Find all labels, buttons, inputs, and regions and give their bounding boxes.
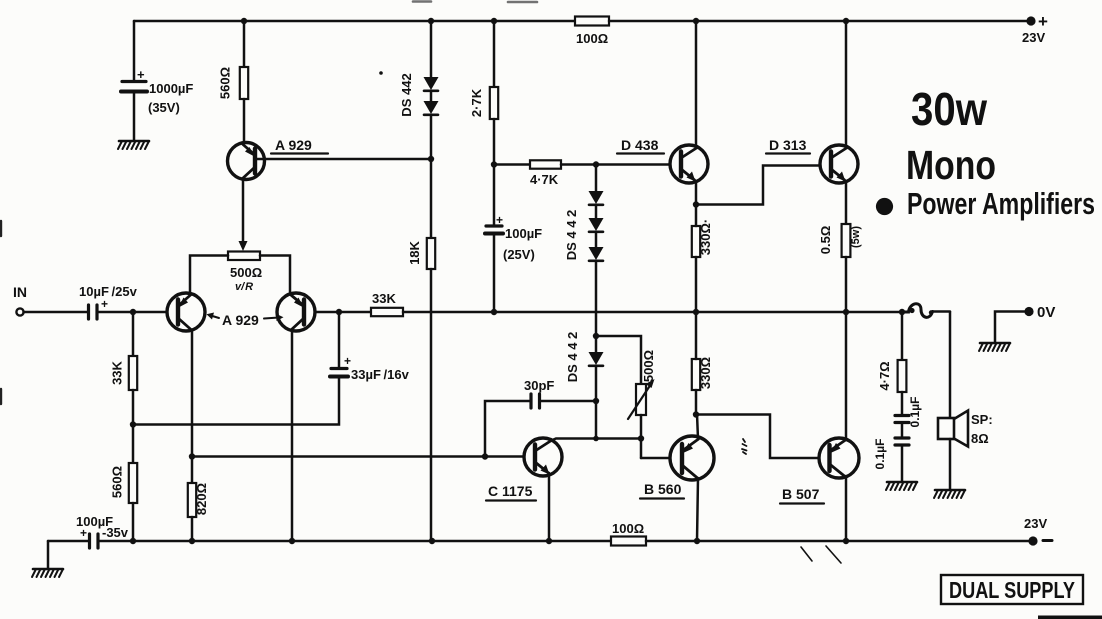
resistor 4.7Ω (zobel) xyxy=(877,312,906,415)
svg-text:B 507: B 507 xyxy=(782,486,820,502)
svg-text:DUAL SUPPLY: DUAL SUPPLY xyxy=(949,577,1075,603)
node IN terminal xyxy=(13,284,27,316)
wire feedback line to 33µF xyxy=(133,377,339,425)
title 30w xyxy=(911,83,987,135)
node top rail / 2.7K xyxy=(491,18,497,24)
capacitor 100µF -35v (rail series) xyxy=(76,514,129,548)
svg-text:2·7K: 2·7K xyxy=(469,88,484,117)
svg-text:18K: 18K xyxy=(407,240,422,264)
node rail / Q3 collector xyxy=(289,538,295,544)
node -23V supply terminal xyxy=(1024,516,1052,546)
capacitor 10µF/25v input coupling xyxy=(79,284,138,319)
stray slash marks xyxy=(801,546,841,563)
svg-text:DS 442: DS 442 xyxy=(399,73,414,116)
svg-text:-35v: -35v xyxy=(102,525,129,540)
diode DS442 single (bias) xyxy=(565,332,604,401)
svg-text:330Ω·: 330Ω· xyxy=(698,219,713,255)
node VR bottom / C1175 collector line xyxy=(638,435,644,441)
wire C1175 emitter to rail xyxy=(548,473,551,541)
wire D438 emitter down xyxy=(695,181,698,204)
resistor 4.7K xyxy=(494,160,670,187)
svg-text:+: + xyxy=(1038,12,1048,31)
resistor 820Ω xyxy=(188,457,209,541)
wire D438 emitter to D313 base xyxy=(696,166,820,205)
svg-text:(35V): (35V) xyxy=(148,100,180,115)
transistor A929 driver (Q1) xyxy=(228,137,329,180)
resistor 100Ω (top rail) xyxy=(575,17,609,47)
node +23V supply terminal xyxy=(1022,12,1048,45)
wire bottom rail right segment xyxy=(646,540,1031,543)
stray left-edge scan marks xyxy=(0,221,2,404)
stray ink scribble near B560 xyxy=(742,439,747,454)
wire Q3 base xyxy=(315,311,339,314)
potentiometer 500Ω V/R xyxy=(190,252,290,294)
svg-text:+: + xyxy=(344,354,351,368)
wire output mid rail xyxy=(403,311,906,314)
svg-text:+: + xyxy=(137,67,145,82)
wire input to coupling cap xyxy=(24,311,88,314)
transistor D438 (pre-driver, NPN) xyxy=(617,137,708,183)
node rail / B560 xyxy=(694,538,700,544)
wire bottom -23V rail left segment xyxy=(48,540,89,543)
svg-text:+: + xyxy=(101,297,108,311)
wire single diode to VAS collector line xyxy=(595,401,598,439)
capacitor 33µF/16v feedback xyxy=(330,312,410,382)
node B507 collector / output rail xyxy=(843,309,849,315)
node feedback junction xyxy=(130,421,136,427)
svg-text:D 438: D 438 xyxy=(621,137,659,153)
resistor 0.5Ω (5w) upper emitter xyxy=(818,224,862,312)
wire VAS base line to C1175 xyxy=(192,455,524,458)
node rail / B507 emitter xyxy=(843,538,849,544)
node top rail / D438 collector xyxy=(693,18,699,24)
wire Q2 collector down xyxy=(191,330,194,456)
node D438 emitter / 330Ω / D313 base link xyxy=(693,201,699,207)
wire Q3 collector down to rail xyxy=(291,330,294,541)
resistor 560Ω (driver emitter, top) xyxy=(218,21,249,143)
wire D313 emitter to 0.5Ω xyxy=(845,181,848,224)
speaker SP 8Ω xyxy=(938,312,993,489)
resistor 33K (input to feedback node) xyxy=(110,312,138,424)
svg-text:100Ω: 100Ω xyxy=(612,521,644,536)
node rail / C1175 emitter xyxy=(546,538,552,544)
ground (zobel) xyxy=(886,482,917,490)
stray bottom-right scan strip xyxy=(1038,616,1102,619)
label A 929 of input pair with pointer arrows xyxy=(207,312,284,328)
node 330Ω lower / B560 emitter / B507 base link xyxy=(693,411,699,417)
svg-text:v/ R: v/ R xyxy=(235,281,253,293)
transistor A929 right of input pair (Q3) xyxy=(277,293,315,331)
svg-text:560Ω: 560Ω xyxy=(110,466,125,498)
node diode bottom corner xyxy=(593,436,599,442)
resistor 18K xyxy=(407,159,435,541)
wire C1175 collector to bias chain xyxy=(550,439,596,442)
svg-text:560Ω: 560Ω xyxy=(218,67,233,99)
svg-text:DS 4 4 2: DS 4 4 2 xyxy=(565,332,580,383)
node bias chain / VR top xyxy=(593,333,599,339)
svg-text:33K: 33K xyxy=(372,291,396,306)
node top rail / D313 collector xyxy=(843,18,849,24)
wire A929 driver base to DS442 node xyxy=(257,158,431,161)
transistor B560 (lower driver, PNP) xyxy=(640,436,714,499)
node rail / 18K xyxy=(429,538,435,544)
svg-text:0V: 0V xyxy=(1037,304,1055,321)
node 330Ω pair / output rail xyxy=(693,309,699,315)
wire B560 bottom lead to rail xyxy=(697,478,698,541)
svg-text:D 313: D 313 xyxy=(769,137,807,153)
capacitor C 1000µF/35V xyxy=(121,21,193,140)
node 30pF / C1175 base line xyxy=(482,453,488,459)
svg-text:33µF /16v: 33µF /16v xyxy=(351,367,410,382)
svg-text:4·7Ω: 4·7Ω xyxy=(877,361,892,390)
node 2.7K / 4.7K / bootstrap xyxy=(491,161,497,167)
svg-text:Power Amplifiers: Power Amplifiers xyxy=(907,186,1095,221)
svg-text:B 560: B 560 xyxy=(644,481,682,497)
ground (speaker) xyxy=(934,490,965,498)
title Mono xyxy=(906,142,996,188)
svg-text:(25V): (25V) xyxy=(503,247,535,262)
svg-text:Mono: Mono xyxy=(906,142,996,188)
svg-text:100Ω: 100Ω xyxy=(576,31,608,46)
node rail / 560Ω xyxy=(130,538,136,544)
wire 330Ω node to B507 base xyxy=(696,415,819,459)
wire B507 emitter to rail xyxy=(845,476,848,541)
svg-text:0.1µF: 0.1µF xyxy=(908,397,922,428)
svg-text:C 1175: C 1175 xyxy=(488,483,533,499)
resistor 100Ω (bottom rail) xyxy=(611,521,646,546)
wire D313 collector to +rail xyxy=(845,21,848,148)
ground (bottom-left) xyxy=(32,569,63,577)
svg-text:500Ω: 500Ω xyxy=(230,265,262,280)
svg-text:+: + xyxy=(496,213,503,227)
node top rail / 560Ω xyxy=(241,18,247,24)
ground (0V reference) xyxy=(979,343,1010,351)
ground (below 1000µF) xyxy=(118,141,149,149)
title bullet Power Amplifiers xyxy=(876,186,1095,221)
svg-text:820Ω: 820Ω xyxy=(194,483,209,515)
stray speck xyxy=(379,71,383,75)
node zobel / output rail xyxy=(899,309,905,315)
resistor 330Ω (upper) xyxy=(692,205,713,312)
stray scan marks top edge xyxy=(413,0,537,3)
svg-text:23V: 23V xyxy=(1022,30,1045,45)
svg-text:23V: 23V xyxy=(1024,516,1047,531)
node 0V terminal xyxy=(1024,304,1055,321)
wire top +23V rail right segment xyxy=(609,20,1029,23)
svg-text:A 929: A 929 xyxy=(222,312,259,328)
node top rail / DS442 pair xyxy=(428,18,434,24)
wire A929 driver collector down to pot wiper xyxy=(239,179,248,251)
wire bottom rail middle segment xyxy=(98,540,611,543)
resistor 560Ω (feedback shunt, lower) xyxy=(110,425,138,541)
svg-text:30w: 30w xyxy=(911,83,987,135)
resistor 330Ω (lower) xyxy=(692,312,713,414)
node 4.7K / bias diode chain xyxy=(593,161,599,167)
wire top +23V rail left segment xyxy=(134,20,575,23)
diode DS442 pair (top) xyxy=(399,21,439,159)
capacitor 0.1µF (zobel lower) xyxy=(873,438,909,481)
resistor 33K (output line series) xyxy=(339,291,403,316)
transistor B507 (lower output, PNP) xyxy=(780,438,859,504)
svg-text:10µF /25v: 10µF /25v xyxy=(79,284,138,299)
transistor D313 (upper output, NPN) xyxy=(766,137,858,183)
svg-text:IN: IN xyxy=(13,284,27,300)
node input bias junction xyxy=(130,309,136,315)
wire 0V to ground xyxy=(995,312,1025,343)
svg-text:0.5Ω: 0.5Ω xyxy=(818,226,833,255)
label DUAL SUPPLY box xyxy=(941,575,1083,604)
svg-text:100µF: 100µF xyxy=(505,226,542,241)
capacitor 100µF/25V bootstrap xyxy=(485,165,542,313)
svg-text:500Ω: 500Ω xyxy=(641,350,656,382)
capacitor 0.1µF (zobel upper) xyxy=(895,397,922,438)
transistor A929 left of input pair (Q2) xyxy=(167,293,205,331)
node rail / 820Ω xyxy=(189,538,195,544)
svg-text:1000µF: 1000µF xyxy=(149,81,193,96)
wire VR bottom to B560 base xyxy=(641,457,670,460)
node Q2 collector / 820Ω / C1175 base line xyxy=(189,453,195,459)
svg-text:DS 4 4 2: DS 4 4 2 xyxy=(564,210,579,261)
wire coupling cap to Q2 base xyxy=(97,311,167,314)
node bootstrap / output rail xyxy=(491,309,497,315)
svg-text:30pF: 30pF xyxy=(524,378,554,393)
svg-text:330Ω: 330Ω xyxy=(698,357,713,389)
wire D438 collector to +rail xyxy=(695,21,698,148)
svg-text:8Ω: 8Ω xyxy=(971,431,989,446)
svg-text:4·7K: 4·7K xyxy=(530,172,559,187)
node DS442 pair / driver base / 18K xyxy=(428,156,434,162)
svg-text:(5w): (5w) xyxy=(850,226,862,248)
transistor C1175 (VAS, NPN) xyxy=(486,438,562,501)
fuse link squiggle on output xyxy=(902,304,950,318)
svg-text:A 929: A 929 xyxy=(275,137,312,153)
resistor 2.7K xyxy=(469,21,498,164)
wire diode bottom to VR line xyxy=(596,437,641,440)
wire B560 top lead to 330Ω node xyxy=(697,414,698,439)
svg-text:0.1µF: 0.1µF xyxy=(873,439,887,470)
node single diode / 30pF xyxy=(593,398,599,404)
potentiometer 500Ω preset (bias) xyxy=(596,336,656,458)
wire B507 collector to output rail xyxy=(845,312,848,440)
node Q3 base / 33K / 33µF xyxy=(336,309,342,315)
svg-text:33K: 33K xyxy=(110,360,125,384)
capacitor 30pF (VAS compensation) xyxy=(485,378,596,457)
diode DS442 triple (bias chain) xyxy=(564,165,604,337)
svg-text:SP:: SP: xyxy=(971,412,993,427)
wire bottom-left ground drop xyxy=(47,541,50,568)
